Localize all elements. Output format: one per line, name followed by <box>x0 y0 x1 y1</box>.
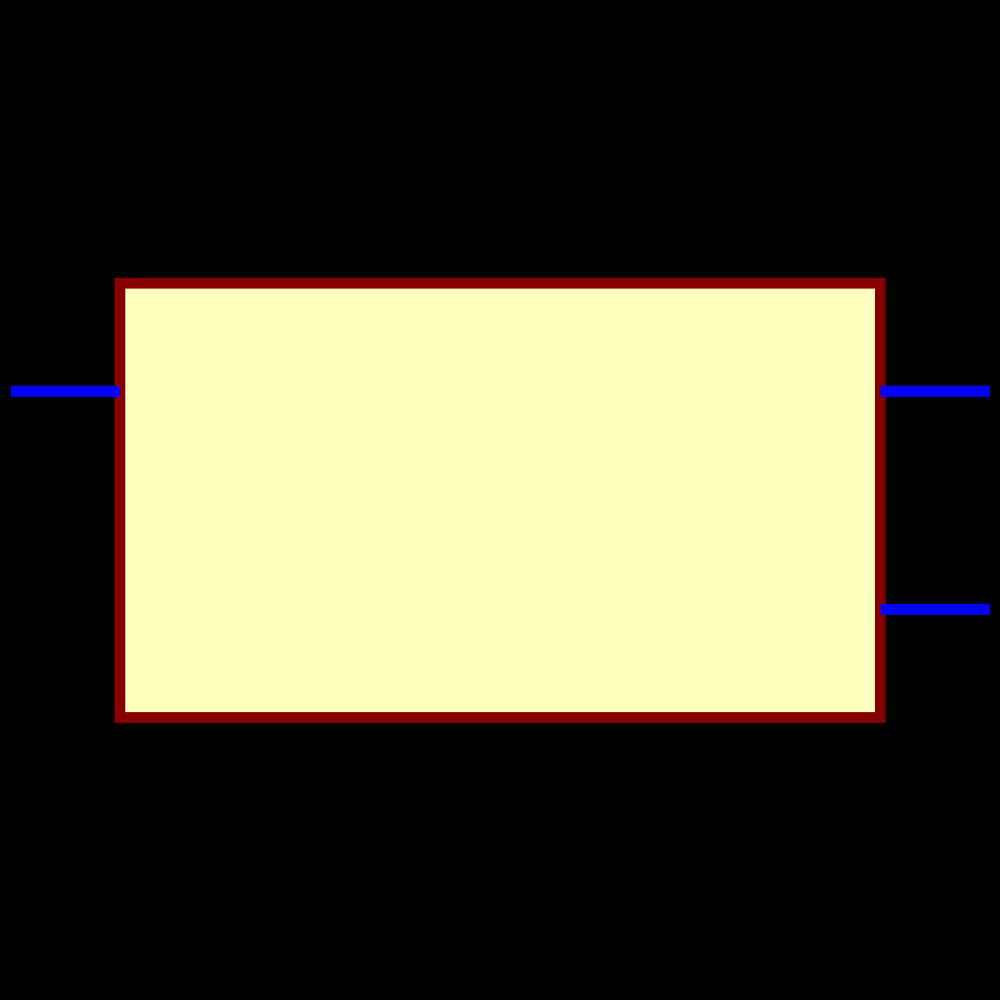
pin 1 wire (left) <box>11 386 120 397</box>
component U1 body (block symbol) <box>120 283 881 717</box>
pin 3 wire (bottom right) <box>881 604 990 615</box>
pin 2 wire (top right) <box>881 386 990 397</box>
